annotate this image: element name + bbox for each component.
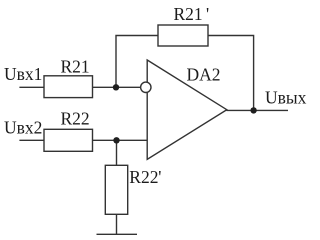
svg-text:DA2: DA2 bbox=[187, 64, 221, 84]
svg-text:R21: R21 bbox=[61, 57, 90, 77]
svg-text:R21: R21 bbox=[174, 4, 203, 24]
svg-text:Uвх1: Uвх1 bbox=[4, 64, 42, 84]
svg-text:Uвых: Uвых bbox=[265, 87, 307, 107]
svg-text:': ' bbox=[206, 4, 209, 24]
svg-text:R22: R22 bbox=[129, 167, 158, 187]
svg-text:': ' bbox=[158, 167, 161, 187]
svg-text:Uвх2: Uвх2 bbox=[4, 117, 42, 137]
svg-text:R22: R22 bbox=[61, 109, 90, 129]
